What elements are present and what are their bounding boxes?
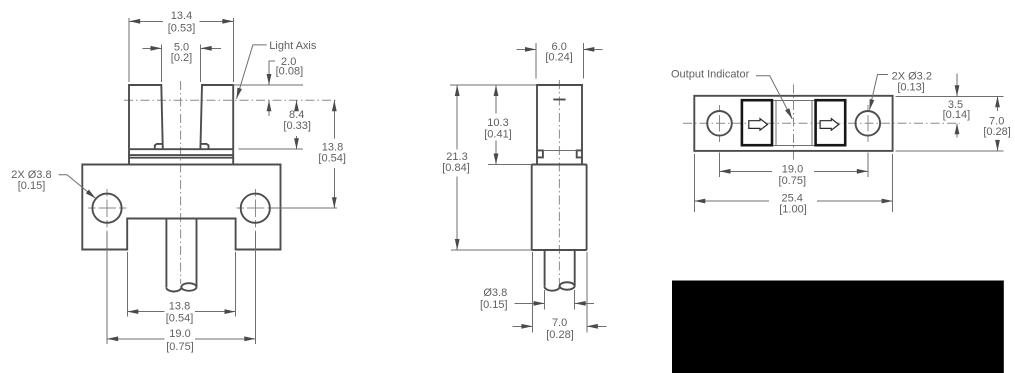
- svg-text:Ø3.8: Ø3.8: [483, 287, 507, 299]
- svg-text:[0.2]: [0.2]: [171, 52, 192, 64]
- svg-text:13.8: 13.8: [169, 300, 190, 312]
- svg-text:[0.15]: [0.15]: [18, 180, 46, 192]
- svg-text:[0.33]: [0.33]: [283, 120, 311, 132]
- svg-text:19.0: 19.0: [782, 164, 803, 176]
- svg-text:[0.08]: [0.08]: [276, 66, 304, 78]
- svg-text:[0.53]: [0.53]: [168, 23, 196, 35]
- svg-text:13.4: 13.4: [171, 10, 192, 22]
- svg-text:[0.54]: [0.54]: [166, 312, 194, 324]
- svg-text:[0.15]: [0.15]: [480, 299, 508, 311]
- svg-text:[0.28]: [0.28]: [983, 126, 1011, 138]
- svg-text:19.0: 19.0: [169, 328, 190, 340]
- svg-text:[0.75]: [0.75]: [779, 175, 807, 187]
- svg-text:[0.13]: [0.13]: [897, 82, 925, 94]
- svg-text:[0.84]: [0.84]: [442, 162, 470, 174]
- svg-text:[0.54]: [0.54]: [318, 152, 346, 164]
- svg-text:7.0: 7.0: [552, 317, 567, 329]
- svg-text:[0.28]: [0.28]: [546, 329, 574, 341]
- svg-text:10.3: 10.3: [487, 117, 508, 129]
- svg-text:[0.41]: [0.41]: [484, 129, 512, 141]
- svg-text:Output Indicator: Output Indicator: [671, 69, 750, 81]
- svg-text:[1.00]: [1.00]: [779, 204, 807, 216]
- svg-text:[0.24]: [0.24]: [545, 51, 573, 63]
- svg-text:Light Axis: Light Axis: [269, 40, 317, 52]
- svg-text:[0.14]: [0.14]: [943, 109, 971, 121]
- svg-text:[0.75]: [0.75]: [166, 341, 194, 353]
